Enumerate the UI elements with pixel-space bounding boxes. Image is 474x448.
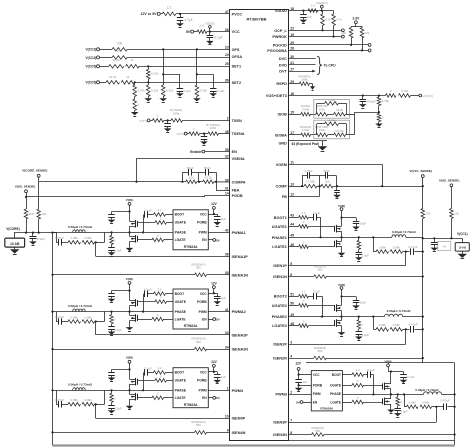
wire xyxy=(403,329,410,331)
capacitor C3 0.1uF xyxy=(177,88,184,90)
wire VDDIO pin 18 xyxy=(289,10,334,12)
svg-text:SET1: SET1 xyxy=(232,64,242,68)
resistor ugate 0 phase 3 xyxy=(352,383,364,387)
wire VCORE rail xyxy=(14,232,56,234)
wire PWM to IC xyxy=(208,311,230,313)
wire to IC pin 25 xyxy=(139,66,230,68)
wire xyxy=(194,31,198,33)
svg-text:100k: 100k xyxy=(319,107,326,111)
svg-text:0.1µF: 0.1µF xyxy=(217,89,225,93)
wire VIN arm to bypass cap xyxy=(112,211,130,213)
svg-text:V(DDIO): V(DDIO) xyxy=(316,1,328,5)
svg-text:560: 560 xyxy=(318,268,323,272)
capacitor boot 0.1uF phase 2 xyxy=(308,296,313,298)
resistor R37 2.94k xyxy=(301,133,311,137)
capacitor C14 to gnd xyxy=(336,186,338,190)
resistor DCR 0.68k b block 2 xyxy=(82,320,95,324)
wire phase node xyxy=(105,390,174,392)
wire VCC feed xyxy=(208,214,217,216)
compensation network A: left bypass riser xyxy=(182,172,184,182)
svg-text:BOOT: BOOT xyxy=(175,371,185,375)
capacitor C1 4.7uF (PVCC) xyxy=(180,14,182,18)
svg-text:PORB: PORB xyxy=(197,379,207,383)
svg-text:4.75k: 4.75k xyxy=(137,89,145,93)
wire VIN down xyxy=(129,205,131,211)
wire RSPD pin 29 xyxy=(289,83,300,85)
wire xyxy=(403,251,410,253)
ground xyxy=(163,97,165,99)
svg-text:12V: 12V xyxy=(211,281,218,285)
ground xyxy=(362,102,364,104)
wire to VCORE rail xyxy=(26,219,28,233)
wire TSEN to IC pin 2 xyxy=(182,120,229,122)
svg-text:2.2: 2.2 xyxy=(167,6,172,10)
NMOS low-side Q1b xyxy=(137,236,139,242)
capacitor 4.7uF VIN bypass block 3 xyxy=(111,369,113,372)
resistor ISEN 2 560 xyxy=(195,347,207,351)
ground xyxy=(111,408,113,410)
bypass resistor R40 14.94k xyxy=(316,124,318,135)
resistor DCR 0.68k b block 3 xyxy=(82,402,95,406)
svg-text:LGATE: LGATE xyxy=(175,317,187,321)
svg-text:PWROK: PWROK xyxy=(272,35,287,39)
wire PGOOD pin 20 xyxy=(289,44,369,46)
resistor ISEN 2 560 xyxy=(314,356,327,360)
svg-text:16.9k: 16.9k xyxy=(336,108,343,112)
ground xyxy=(303,17,305,19)
svg-text:LGATE: LGATE xyxy=(175,396,187,400)
wire ISEN2N line xyxy=(53,349,195,351)
wire VIN arm to cap xyxy=(342,217,357,219)
svg-text:1k: 1k xyxy=(126,75,130,79)
svg-text:BOOT: BOOT xyxy=(175,213,185,217)
resistor R6 1k xyxy=(126,65,140,69)
svg-text:RT3607BB: RT3607BB xyxy=(247,16,267,21)
wire inductor line xyxy=(53,390,105,392)
wire to gate xyxy=(364,402,383,404)
ground xyxy=(179,91,181,93)
wire to IC pin 23 xyxy=(127,49,230,51)
svg-text:5.76k: 5.76k xyxy=(401,89,409,93)
wire xyxy=(310,134,315,136)
svg-text:UGATE: UGATE xyxy=(175,300,187,304)
svg-text:0.47µF: 0.47µF xyxy=(55,315,64,319)
wire xyxy=(317,186,321,188)
capacitor DCR 0.47uF phase 3 xyxy=(443,404,445,411)
svg-text:12.4k: 12.4k xyxy=(112,58,120,62)
svg-text:2.2: 2.2 xyxy=(157,287,161,291)
svg-text:10 AB: 10 AB xyxy=(10,242,20,246)
svg-text:UGATE1: UGATE1 xyxy=(272,225,287,229)
resistor R8 1k xyxy=(121,81,134,85)
capacitor C4 0.1uF xyxy=(210,88,217,90)
svg-text:RT9624A: RT9624A xyxy=(184,403,198,407)
svg-text:4.7µF: 4.7µF xyxy=(185,18,193,22)
wire ISEN2N line xyxy=(289,358,314,360)
svg-text:VSENA: VSENA xyxy=(232,157,245,161)
resistor R17 1k xyxy=(189,132,200,136)
svg-text:4: 4 xyxy=(290,354,292,358)
svg-text:UGATE2: UGATE2 xyxy=(272,304,287,308)
wire to IC xyxy=(207,274,230,276)
wire xyxy=(328,175,336,177)
svg-text:2.2: 2.2 xyxy=(199,24,204,28)
svg-text:3.3µF: 3.3µF xyxy=(114,328,122,332)
svg-text:PWM: PWM xyxy=(199,389,207,393)
inductor L2 0.56uH xyxy=(73,309,85,312)
svg-text:PHASE: PHASE xyxy=(175,310,187,314)
wire to VCORE rail xyxy=(38,219,40,233)
svg-text:ISEN1P: ISEN1P xyxy=(273,264,287,268)
wire to driver UGATE xyxy=(167,301,174,303)
svg-text:2.2: 2.2 xyxy=(356,368,360,372)
NMOS low-side phase 3 xyxy=(382,398,384,404)
svg-text:UGATE: UGATE xyxy=(175,379,187,383)
resistor R30 5.76k xyxy=(399,94,411,98)
wire riser to phase xyxy=(104,232,106,242)
resistor DCR 0.68k b phase 3 xyxy=(420,405,432,409)
svg-text:0.56µH / 0.73mΩ: 0.56µH / 0.73mΩ xyxy=(68,383,92,387)
capacitor C6 0.1uF (TSENA) xyxy=(204,134,206,137)
wire PVCC to IC pin 47 xyxy=(176,13,230,15)
svg-text:0.1µF: 0.1µF xyxy=(144,288,152,292)
wire VCC feed xyxy=(208,371,217,373)
svg-text:82pF: 82pF xyxy=(187,166,194,170)
resistor DCR 0.68k a block 1 xyxy=(68,241,81,245)
resistor DCR 0.68k a phase 1 xyxy=(373,251,376,253)
wire to IC pin 36 xyxy=(135,82,230,84)
ground xyxy=(32,239,34,242)
wire xyxy=(432,406,444,408)
resistor ugate 0 block 3 xyxy=(155,379,167,383)
wire to output xyxy=(442,394,455,396)
inductor L1 0.56uH xyxy=(73,230,85,233)
wire ISOB pin 15 xyxy=(289,114,301,116)
resistor R26 10k pullup PGOOD xyxy=(351,27,353,28)
wire xyxy=(62,321,68,323)
svg-text:12V: 12V xyxy=(295,362,302,366)
wire to rail xyxy=(414,251,422,253)
svg-text:EN: EN xyxy=(202,396,207,400)
resistor DCR 0.68k a phase 2 xyxy=(373,329,376,331)
wire xyxy=(197,181,203,183)
wire VCC sense column xyxy=(422,178,424,209)
NMOS high-side phase 1 xyxy=(341,218,343,227)
svg-text:V(TT): V(TT) xyxy=(177,132,185,136)
wire VIN down xyxy=(341,211,343,218)
svg-text:169k: 169k xyxy=(173,112,180,116)
resistor R43 100 xyxy=(421,209,425,219)
svg-text:GND: GND xyxy=(278,142,287,146)
resistor boot 2.2 phase 2 xyxy=(299,294,309,298)
svg-text:15: 15 xyxy=(290,111,294,115)
svg-text:ISEN4P: ISEN4P xyxy=(232,417,246,421)
ground xyxy=(336,193,338,195)
resistor R5 12.4k xyxy=(109,65,124,69)
NMOS high-side Q3a xyxy=(129,369,131,377)
snubber cap 3.3uF phase 2 xyxy=(358,329,360,332)
wire xyxy=(164,120,171,122)
svg-text:25: 25 xyxy=(225,62,229,66)
node 5V enable xyxy=(208,319,213,321)
svg-text:31: 31 xyxy=(225,186,229,190)
capacitor 4.7uF VIN bypass block 2 xyxy=(111,291,113,294)
svg-text:UGATE: UGATE xyxy=(175,221,187,225)
wire to rail xyxy=(326,276,423,278)
resistor R39 10.73k xyxy=(334,133,346,137)
svg-text:4.7k: 4.7k xyxy=(325,18,331,22)
wire down to resistor xyxy=(26,197,28,209)
ground xyxy=(148,97,150,99)
wire TSENA to IC pin 45 xyxy=(219,133,230,135)
svg-text:×5: ×5 xyxy=(443,245,447,249)
wire ALERT with arrow xyxy=(289,71,314,73)
svg-text:COMPA: COMPA xyxy=(232,181,246,185)
resistor R2 2.2 (VCC filter) xyxy=(197,30,207,34)
svg-text:0.68k: 0.68k xyxy=(71,398,79,402)
wire LGATE phase 3 xyxy=(342,402,352,404)
svg-text:PWM: PWM xyxy=(199,310,207,314)
wire xyxy=(147,293,153,295)
wire VCC rail vertical xyxy=(422,238,424,363)
snubber resistor 0 block 3 xyxy=(111,390,113,393)
svg-text:0.1µF: 0.1µF xyxy=(183,89,191,93)
svg-text:V(CORE_SENSE): V(CORE_SENSE) xyxy=(22,169,47,173)
ground xyxy=(129,323,131,327)
capacitor 4.7uF VIN bypass block 1 xyxy=(111,212,113,215)
wire xyxy=(38,177,40,182)
ground xyxy=(111,329,113,331)
svg-text:470µF: 470µF xyxy=(37,237,46,241)
svg-text:VCC: VCC xyxy=(200,371,208,375)
resistor R14 4.32k xyxy=(195,85,199,97)
wire LGATE xyxy=(289,325,299,327)
svg-text:ISENA2P: ISENA2P xyxy=(232,333,249,337)
svg-text:PWM: PWM xyxy=(313,392,321,396)
gate driver U2 RT9624A xyxy=(173,210,208,250)
resistor lgate 0 phase 2 xyxy=(299,324,309,328)
svg-text:ISEN4N: ISEN4N xyxy=(232,431,246,435)
svg-text:1: 1 xyxy=(227,387,229,391)
svg-text:V(CC5): V(CC5) xyxy=(86,65,97,69)
ground xyxy=(111,297,113,299)
svg-text:VCC: VCC xyxy=(200,292,208,296)
svg-text:4700pF: 4700pF xyxy=(366,100,376,104)
svg-text:0.68k: 0.68k xyxy=(379,323,387,327)
inductor phase 1 0.36uH xyxy=(392,235,406,238)
ground xyxy=(209,38,211,41)
wire inductor line xyxy=(53,232,105,234)
svg-text:OFSA: OFSA xyxy=(232,55,243,59)
wire ISEN1P line xyxy=(96,256,230,258)
wire UGATE phase 2 xyxy=(289,305,299,307)
resistor R3 20k xyxy=(112,48,127,52)
capacitor boot 0.1uF phase 3 xyxy=(364,374,368,376)
svg-text:0.68k: 0.68k xyxy=(85,398,93,402)
wire to output riser xyxy=(324,434,455,436)
snubber cap 3.3uF phase 3 xyxy=(397,406,399,409)
resistor R32 0 xyxy=(377,114,381,122)
svg-text:42: 42 xyxy=(225,229,229,233)
svg-text:V(CC3): V(CC3) xyxy=(86,48,97,52)
resistor R15 1k xyxy=(152,119,163,123)
svg-text:63 (Exposed Pad): 63 (Exposed Pad) xyxy=(292,142,319,146)
wire ladder column B xyxy=(196,49,198,85)
ground xyxy=(14,247,16,250)
load box 10AB (VCORE) xyxy=(5,238,25,247)
svg-text:BOOT: BOOT xyxy=(332,373,341,377)
wire VSEN pin 11 xyxy=(289,164,383,166)
wire boot jog xyxy=(370,374,374,376)
svg-text:3.3µF: 3.3µF xyxy=(362,333,370,337)
resistor R9 4.22k (between SET1 and SET2) xyxy=(148,66,150,69)
NMOS low-side phase 1 xyxy=(334,241,336,247)
svg-text:1µF: 1µF xyxy=(302,380,307,384)
ground xyxy=(462,251,464,254)
svg-text:0.1µF: 0.1µF xyxy=(313,290,321,294)
wire 3.3V tee xyxy=(355,24,357,27)
svg-text:0.68k: 0.68k xyxy=(71,236,79,240)
capacitor C8 56pF xyxy=(205,169,207,176)
wire ISEN P drop xyxy=(95,322,97,335)
svg-text:0.1µF: 0.1µF xyxy=(144,209,152,213)
wire VCC feed xyxy=(208,293,217,295)
wire to bus xyxy=(345,114,354,116)
inductor L4 0.36uH phase 3 xyxy=(424,392,442,395)
NTC network box B xyxy=(314,100,350,119)
svg-text:27: 27 xyxy=(290,67,294,71)
wire to gate xyxy=(308,246,334,248)
resistor R24 4.7k pullup OCP_L xyxy=(322,11,324,14)
svg-text:To CPU: To CPU xyxy=(324,63,337,67)
snubber resistor 0 block 2 xyxy=(111,312,113,315)
svg-text:13: 13 xyxy=(290,182,294,186)
svg-text:2.94k: 2.94k xyxy=(302,128,310,132)
wire VIN down xyxy=(341,289,343,296)
capacitor C2 0.1uF (VCC) xyxy=(209,32,211,36)
svg-text:PWMA2: PWMA2 xyxy=(232,310,246,314)
resistor R44 100 xyxy=(450,209,454,219)
capacitor DCR 0.47uF phase 1 xyxy=(410,248,412,255)
wire to gate xyxy=(364,385,383,387)
svg-text:10 AB: 10 AB xyxy=(459,246,467,250)
svg-text:V(SS_SENSE): V(SS_SENSE) xyxy=(439,179,459,183)
wire to rail xyxy=(326,358,423,360)
svg-text:2.2: 2.2 xyxy=(311,4,316,8)
wire xyxy=(192,172,205,174)
svg-text:0.1µF: 0.1µF xyxy=(367,368,375,372)
wire xyxy=(150,120,152,122)
wire phase node xyxy=(105,232,174,234)
svg-text:PHASE2: PHASE2 xyxy=(272,315,287,319)
wire xyxy=(187,133,189,135)
svg-text:V(CORE): V(CORE) xyxy=(6,227,19,231)
inductor L3 0.56uH xyxy=(73,388,85,391)
svg-text:10k: 10k xyxy=(189,175,194,179)
svg-text:V(IN): V(IN) xyxy=(126,356,133,360)
wire PWROK pin 19 xyxy=(289,36,342,38)
wire xyxy=(310,114,315,116)
NMOS high-side Q1a xyxy=(129,212,131,220)
right phase 2: wire BOOT xyxy=(289,296,299,298)
wire riser to phase xyxy=(104,390,106,404)
wire VSENA jog xyxy=(137,158,230,160)
svg-text:10k: 10k xyxy=(341,31,346,35)
wire xyxy=(362,38,364,50)
right phase 1: wire BOOT xyxy=(289,217,299,219)
snubber cap 3.3uF phase 1 xyxy=(358,249,360,252)
svg-text:0.36µH / 0.73mΩ: 0.36µH / 0.73mΩ xyxy=(387,309,411,313)
resistor lgate 0 phase 3 xyxy=(352,400,364,404)
wire bottom edge xyxy=(289,440,455,442)
wire to gate xyxy=(308,305,334,307)
comp caps row xyxy=(302,175,304,186)
capacitor C5 0.1uF (TSEN) xyxy=(167,120,169,123)
wire xyxy=(147,214,153,216)
wire VIN arm to bypass cap xyxy=(112,290,130,292)
svg-text:10µF: 10µF xyxy=(360,221,367,225)
svg-text:34: 34 xyxy=(225,345,229,349)
ground xyxy=(180,20,182,23)
svg-text:V(DD5): V(DD5) xyxy=(205,21,215,25)
capacitor 1uF driver vcc phase 3 xyxy=(298,375,300,380)
wire to rail xyxy=(414,329,422,331)
svg-text:0.68k: 0.68k xyxy=(85,315,93,319)
wire COMPA to IC pin 30 xyxy=(214,181,230,183)
svg-text:TSENA: TSENA xyxy=(232,132,245,136)
svg-text:PHASE: PHASE xyxy=(330,392,341,396)
svg-text:LGATE: LGATE xyxy=(330,400,341,404)
wire xyxy=(322,26,324,31)
resistor R22 100 xyxy=(24,209,28,219)
ground xyxy=(341,249,343,253)
svg-text:3.3µF: 3.3µF xyxy=(401,409,409,413)
ground xyxy=(403,377,405,379)
wire VCC output row xyxy=(423,238,463,240)
svg-text:LGATE1: LGATE1 xyxy=(272,245,287,249)
svg-text:EN: EN xyxy=(313,400,318,404)
wire boot cap riser xyxy=(143,215,145,233)
resistor R35 16.9k xyxy=(334,112,346,116)
wire xyxy=(298,370,300,374)
svg-text:3.3µF: 3.3µF xyxy=(362,254,370,258)
svg-text:DVT: DVT xyxy=(279,70,287,74)
wire VIN down xyxy=(388,363,390,364)
gate driver U4 RT9624A xyxy=(173,368,208,408)
svg-text:560: 560 xyxy=(318,349,323,353)
svg-text:32: 32 xyxy=(225,155,229,159)
wire sense line to VCC rail xyxy=(333,186,423,188)
svg-text:6.78k: 6.78k xyxy=(382,99,390,103)
wire PGOODA pin 28 xyxy=(289,50,369,52)
svg-text:PGDB: PGDB xyxy=(232,194,243,198)
svg-text:RSPD: RSPD xyxy=(276,82,287,86)
resistor R4 20k xyxy=(112,56,127,60)
wire SDIO xyxy=(289,64,316,66)
capacitor C9 470uF x3 (VCORE bulk) xyxy=(32,233,34,237)
capacitor DCR 0.47uF phase 2 xyxy=(410,326,412,333)
svg-text:560: 560 xyxy=(196,340,201,344)
svg-text:12.4k: 12.4k xyxy=(109,75,117,79)
svg-text:4.7µF: 4.7µF xyxy=(407,375,415,379)
wire to driver LGATE xyxy=(164,397,174,399)
wire boot cap riser xyxy=(143,372,145,390)
svg-text:PWM4: PWM4 xyxy=(232,389,244,393)
wire UGATE xyxy=(138,380,156,382)
wire ISEN P drop xyxy=(405,252,407,266)
svg-text:PORB: PORB xyxy=(197,221,207,225)
capacitor C10 1uF (VDDIO) xyxy=(303,11,305,15)
